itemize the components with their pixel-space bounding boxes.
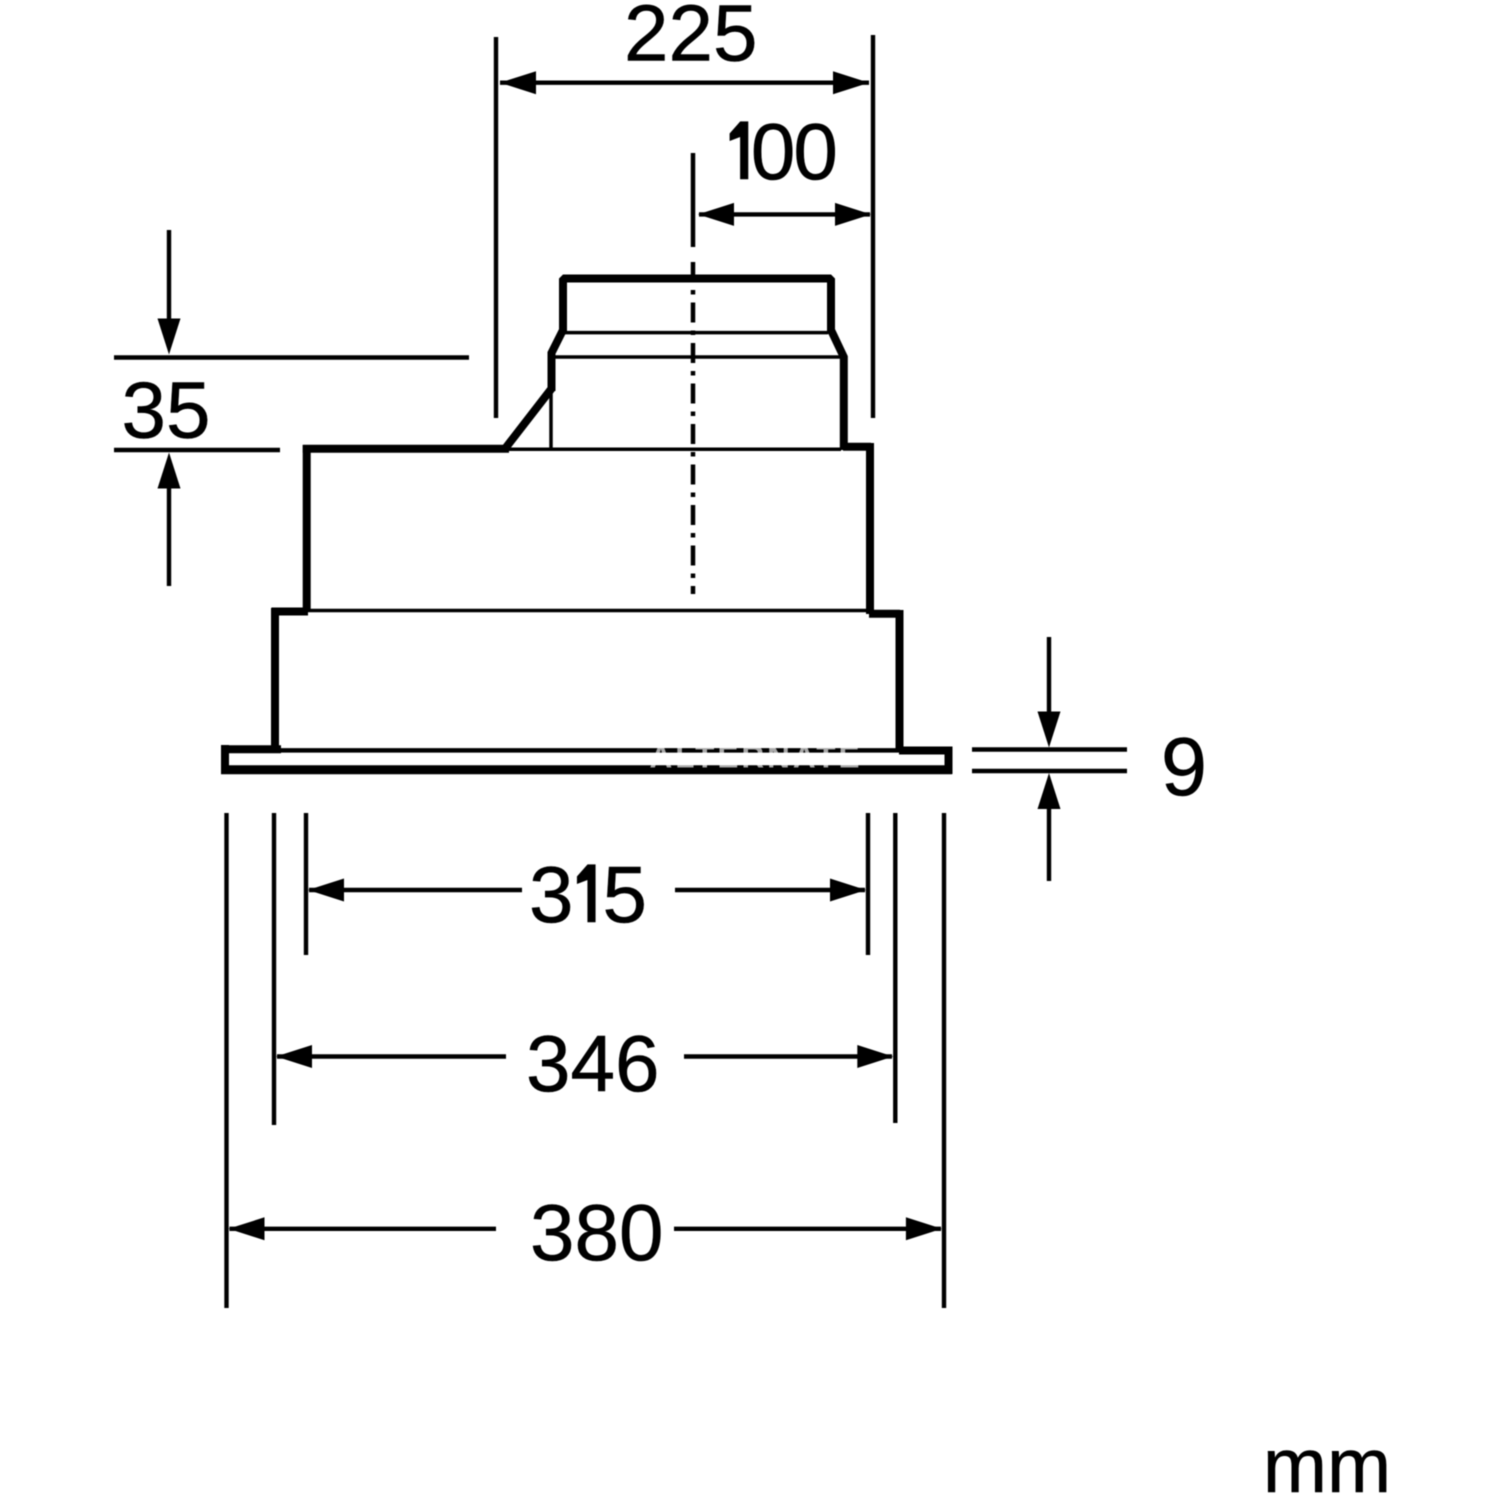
svg-text:35: 35 bbox=[122, 366, 211, 455]
arrowhead 100 right bbox=[835, 203, 871, 226]
arrowhead 380 right bbox=[906, 1217, 942, 1240]
35 up arrowhead bbox=[158, 453, 181, 489]
arrowhead 346 left bbox=[276, 1045, 312, 1068]
lower body bottom thin bbox=[281, 748, 899, 753]
bottom extension line 346 right bbox=[893, 813, 897, 1123]
mid body left vertical bbox=[303, 445, 311, 611]
collar right step bbox=[843, 443, 871, 451]
collar left flare and side bbox=[552, 330, 564, 391]
svg-text:3: 3 bbox=[529, 850, 574, 939]
dimension line 346 right segment bbox=[684, 1054, 892, 1058]
mid body bottom thin bbox=[307, 609, 870, 613]
flange left step bbox=[221, 745, 281, 753]
duct collar top cap bbox=[563, 279, 831, 335]
dim 9 up arrowhead bbox=[1038, 773, 1061, 809]
dim 9 down arrowhead bbox=[1038, 712, 1061, 748]
left step bbox=[272, 608, 309, 616]
dimension line 380 left segment bbox=[230, 1227, 497, 1231]
bottom extension line 315 right bbox=[866, 813, 870, 955]
label 100 bbox=[730, 122, 748, 179]
mid body right vertical bbox=[866, 443, 874, 614]
svg-text:ALTERNATE: ALTERNATE bbox=[649, 739, 862, 775]
35 reference line lower bbox=[114, 448, 280, 452]
flange bottom thick bbox=[221, 765, 952, 774]
arrowhead 225 left bbox=[500, 71, 536, 94]
svg-text:9: 9 bbox=[1161, 720, 1207, 813]
bottom extension line 380 left bbox=[224, 813, 228, 1308]
mid body top thin bbox=[509, 447, 841, 451]
arrowhead 315 right bbox=[830, 879, 866, 902]
dimension line 100 bbox=[699, 212, 870, 216]
chamfer left slant bbox=[505, 388, 552, 449]
right step bbox=[869, 610, 900, 618]
mid body top thick bbox=[303, 445, 509, 453]
flange left end cap bbox=[221, 745, 229, 774]
35 up arrow shaft bbox=[167, 486, 171, 586]
arrowhead 346 right bbox=[857, 1045, 893, 1068]
arrowhead 380 left bbox=[229, 1217, 265, 1240]
extension line 225 left bbox=[494, 37, 498, 418]
dim 9 down arrow shaft bbox=[1047, 637, 1051, 713]
svg-text:5: 5 bbox=[602, 850, 647, 939]
lower body left vertical bbox=[271, 608, 279, 748]
svg-text:0: 0 bbox=[751, 107, 796, 196]
dimension line 380 right segment bbox=[674, 1227, 941, 1231]
flange right end cap bbox=[945, 747, 953, 775]
svg-text:225: 225 bbox=[624, 0, 757, 78]
svg-text:mm: mm bbox=[1263, 1423, 1391, 1500]
dimension line 346 left segment bbox=[277, 1054, 506, 1058]
bottom extension line 380 right bbox=[942, 813, 946, 1308]
35 down arrowhead bbox=[158, 319, 181, 355]
svg-text:346: 346 bbox=[526, 1019, 659, 1108]
centerline solid top segment bbox=[691, 153, 696, 247]
35 down arrow shaft bbox=[167, 230, 171, 322]
dim 9 lower line bbox=[972, 769, 1127, 773]
dimension line 315 left segment bbox=[309, 888, 522, 892]
svg-text:0: 0 bbox=[793, 107, 838, 196]
bottom extension line 346 left bbox=[272, 813, 276, 1125]
lower body right vertical bbox=[896, 610, 904, 751]
collar left lower hidden thin bbox=[549, 389, 553, 449]
collar seam upper bbox=[565, 331, 828, 335]
flange right step bbox=[899, 747, 952, 755]
arrowhead 315 left bbox=[308, 879, 344, 902]
dimension line 315 right segment bbox=[675, 888, 865, 892]
centerline dash-dot bbox=[691, 262, 696, 594]
svg-text:380: 380 bbox=[530, 1188, 663, 1277]
dim 9 upper line bbox=[972, 747, 1127, 751]
extension line 225/100 right bbox=[871, 35, 875, 418]
dimension line 225 bbox=[500, 80, 869, 84]
dim 9 up arrow shaft bbox=[1047, 807, 1051, 881]
arrowhead 100 left bbox=[698, 203, 734, 226]
arrowhead 225 right bbox=[833, 71, 869, 94]
collar right flare and side bbox=[831, 330, 844, 450]
bottom extension line 315 left bbox=[304, 813, 308, 955]
collar seam lower bbox=[553, 355, 840, 359]
35 reference line upper bbox=[114, 355, 469, 359]
